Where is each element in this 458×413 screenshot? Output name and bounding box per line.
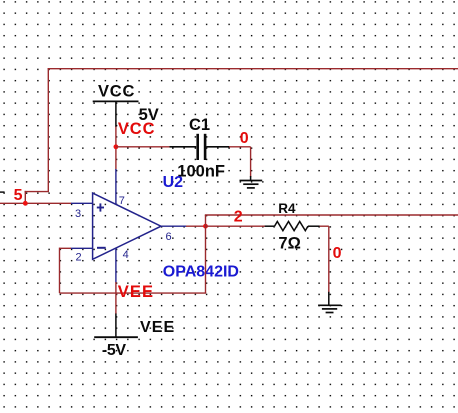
svg-text:R4: R4 <box>278 201 296 216</box>
svg-text:0: 0 <box>240 130 249 147</box>
node 5 label <box>14 187 23 204</box>
wire junction up <box>205 215 207 226</box>
svg-text:U2: U2 <box>163 174 184 191</box>
wire top rail from VCC branch to right edge <box>48 68 458 70</box>
svg-text:7Ω: 7Ω <box>278 234 300 252</box>
svg-text:100nF: 100nF <box>177 162 225 180</box>
svg-text:5: 5 <box>14 187 23 204</box>
resistor R4 <box>265 201 320 252</box>
svg-text:3: 3 <box>75 208 81 220</box>
wire feedback from inverting input <box>60 226 207 293</box>
ground for R4 <box>318 292 341 313</box>
node 0 label at C1 ground <box>240 130 249 147</box>
pin 2 label <box>76 252 82 264</box>
capacitor C1 <box>170 116 230 181</box>
wire R4 to ground <box>320 226 329 292</box>
pin 6 label <box>166 231 172 243</box>
wire output to junction <box>186 225 206 227</box>
terminal stub at left edge <box>0 191 5 193</box>
svg-text:VCC: VCC <box>118 120 156 138</box>
wire C1 to ground corner <box>229 147 251 177</box>
op-amp U2 OPA842ID <box>70 169 186 283</box>
wire output rail to right edge <box>205 214 458 216</box>
net VCC label <box>118 120 156 138</box>
wire short jog vertical <box>24 191 26 203</box>
wire vertical drop from top rail <box>47 68 49 192</box>
svg-text:VEE: VEE <box>118 283 154 301</box>
node 0 label at R4 ground <box>333 245 342 262</box>
net VEE label <box>118 283 154 301</box>
svg-text:VCC: VCC <box>98 82 135 100</box>
svg-text:-5V: -5V <box>102 342 126 359</box>
junction node 5 <box>23 201 28 206</box>
power symbol VEE <box>94 314 175 360</box>
wire VCC junction to C1 <box>116 146 170 148</box>
svg-text:OPA842ID: OPA842ID <box>163 263 239 280</box>
svg-text:0: 0 <box>333 245 342 262</box>
svg-text:2: 2 <box>76 252 82 264</box>
svg-text:C1: C1 <box>189 116 210 134</box>
svg-text:4: 4 <box>123 249 129 261</box>
wire junction to R4 <box>206 225 266 227</box>
svg-text:6: 6 <box>166 231 172 243</box>
wire short jog horizontal <box>25 191 49 193</box>
svg-text:VEE: VEE <box>140 319 175 336</box>
wire VCC vertical to junction <box>115 127 117 170</box>
power symbol VCC <box>93 82 159 127</box>
designator U2 <box>163 174 184 191</box>
pin 7 label <box>119 195 125 207</box>
pin 3 label <box>75 208 81 220</box>
node 2 label <box>234 209 243 226</box>
junction node 2 <box>203 224 208 229</box>
value OPA842ID <box>163 263 239 280</box>
ground for C1 <box>240 176 263 188</box>
svg-text:2: 2 <box>234 209 243 226</box>
pin 4 label <box>123 249 129 261</box>
svg-text:7: 7 <box>119 195 125 207</box>
wire VEE vertical <box>115 282 117 314</box>
junction VCC node <box>114 144 119 149</box>
wire noninverting input <box>0 202 72 204</box>
